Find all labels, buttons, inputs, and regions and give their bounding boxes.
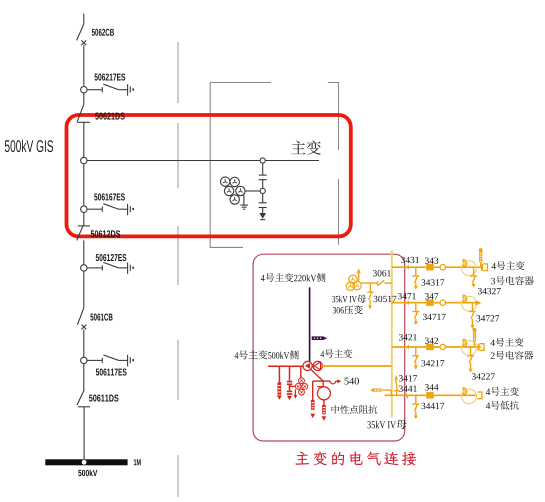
label 500kV GIS <box>5 140 53 152</box>
label 主变 <box>291 140 321 154</box>
node circle <box>440 344 445 349</box>
gray enclosure outline <box>210 83 338 248</box>
capacitor drop 2 <box>287 366 293 400</box>
node: transformer tap on 500kV bus <box>260 158 265 163</box>
wire <box>262 194 264 203</box>
label 4号主变 3号电容器 <box>491 261 533 285</box>
wire <box>83 93 85 105</box>
wire <box>78 212 90 226</box>
current transformer <box>462 295 477 311</box>
label 4号主变220kV侧 <box>261 273 326 282</box>
node: junction with earthing switch branch <box>81 87 87 93</box>
label 4号主变 <box>320 349 352 358</box>
label 35kV IV母 (bottom) <box>367 420 406 430</box>
wire <box>83 330 85 358</box>
earthing switch 34217 <box>412 347 444 370</box>
red highlight box 500kV GIS section <box>67 115 351 236</box>
earthing switch 34717 <box>412 303 445 326</box>
wire 220kV lead <box>309 287 311 361</box>
wire <box>262 163 264 175</box>
35kV IV bus <box>391 250 393 417</box>
surge arrester on bus (left) <box>370 388 391 395</box>
connector arrow 3431 <box>401 257 419 270</box>
earthing switch 506167ES <box>87 193 134 215</box>
wire <box>434 394 477 396</box>
wire: feeder 343 <box>392 266 426 268</box>
disconnector 3417 with arrow up <box>394 375 399 395</box>
voltage transformer cluster (red) <box>290 366 308 399</box>
label 4号主变 2号电容器 <box>490 338 533 360</box>
earthing switch 506217ES <box>87 74 134 96</box>
disconnector 50621DS <box>77 104 125 122</box>
isolating link (bars) <box>259 175 267 188</box>
wire: bus to main transformer <box>87 160 319 162</box>
wire: feeder 347 <box>392 302 426 304</box>
surge arrester (343 feeder) <box>479 248 483 267</box>
wire <box>83 122 85 157</box>
wire <box>434 266 481 268</box>
wire <box>83 407 85 460</box>
earthing switch 34327 <box>470 267 501 294</box>
earthing switch 506117ES <box>87 355 134 376</box>
node <box>81 265 87 271</box>
wire to neutral <box>311 370 323 382</box>
wire transformer tertiary to 35kV bus (yellow) <box>322 365 392 367</box>
node <box>260 188 265 193</box>
label 中性点阻抗 <box>331 405 377 414</box>
earthing switch 34417 <box>412 395 444 419</box>
current transformer <box>462 388 477 404</box>
circuit breaker 5062CB <box>77 24 114 45</box>
earthing switch 34227 <box>467 347 495 380</box>
voltage transformer 306压变 <box>346 275 361 290</box>
breaker 344 <box>425 384 438 398</box>
caption 主变的电气连接 <box>295 451 416 465</box>
earthing switch 34317 <box>412 267 444 290</box>
wire: feeder 342 <box>392 346 426 348</box>
wire <box>83 271 85 308</box>
earthing switch 30517 <box>367 283 396 309</box>
isolating link (bars) <box>259 203 267 213</box>
connector arrow 3471 <box>398 293 416 305</box>
arrow up from PT <box>357 268 361 281</box>
capacitor terminal <box>481 264 488 271</box>
wire <box>83 45 85 86</box>
circuit breaker 5061CB <box>78 308 113 330</box>
surge arrester (342 feeder) <box>473 328 477 347</box>
breaker 342 <box>425 338 438 351</box>
disconnector 50612DS <box>77 226 120 240</box>
wire PT to bus <box>361 282 377 284</box>
surge arrester drop 1 <box>277 366 282 400</box>
node: 500kV GIS bus junction <box>81 157 87 163</box>
reactor terminal <box>477 392 482 399</box>
connector arrow 3421 <box>399 334 417 349</box>
capacitor terminal <box>478 344 485 351</box>
wire <box>434 302 476 304</box>
node <box>81 357 87 363</box>
wire: incoming 500kV line top <box>83 14 85 25</box>
transformer 主变 winding cluster <box>221 177 261 204</box>
transformer 4号主变 windings <box>303 361 322 370</box>
wire: feeder 344 <box>385 394 427 396</box>
label 4号主变 4号低抗 <box>486 387 519 410</box>
wire <box>83 164 85 206</box>
arrow terminal down <box>259 213 266 220</box>
arrow end 347 <box>476 300 482 305</box>
earthing switch 34727 <box>469 303 499 329</box>
wire <box>434 346 481 348</box>
breaker 343 <box>425 258 438 271</box>
current transformer <box>462 339 477 355</box>
neutral wire left <box>310 381 323 418</box>
dashed boundary line <box>177 42 179 497</box>
disconnector 3441 <box>399 375 417 398</box>
node circle <box>440 300 445 305</box>
ground <box>240 195 248 210</box>
cable terminal (purple) <box>312 336 328 340</box>
wire <box>83 364 85 390</box>
current transformer <box>462 260 477 276</box>
node circle <box>440 265 445 270</box>
earthing switch 506127ES <box>87 254 134 274</box>
disconnector 3061 <box>373 270 392 286</box>
node <box>81 206 87 212</box>
wire <box>83 240 85 264</box>
disconnector 50611DS <box>77 390 119 407</box>
pink outline box main transformer connection <box>253 254 405 441</box>
label 4号主变500kV侧 <box>235 350 299 359</box>
busbar 1M 500kV <box>45 459 140 476</box>
label 35kV IV母 306压变 <box>332 295 366 315</box>
breaker 347 <box>425 293 438 306</box>
branch to 540 <box>323 378 359 385</box>
neutral point impedance coil <box>317 381 330 421</box>
wire 500kV lead <box>268 365 303 367</box>
